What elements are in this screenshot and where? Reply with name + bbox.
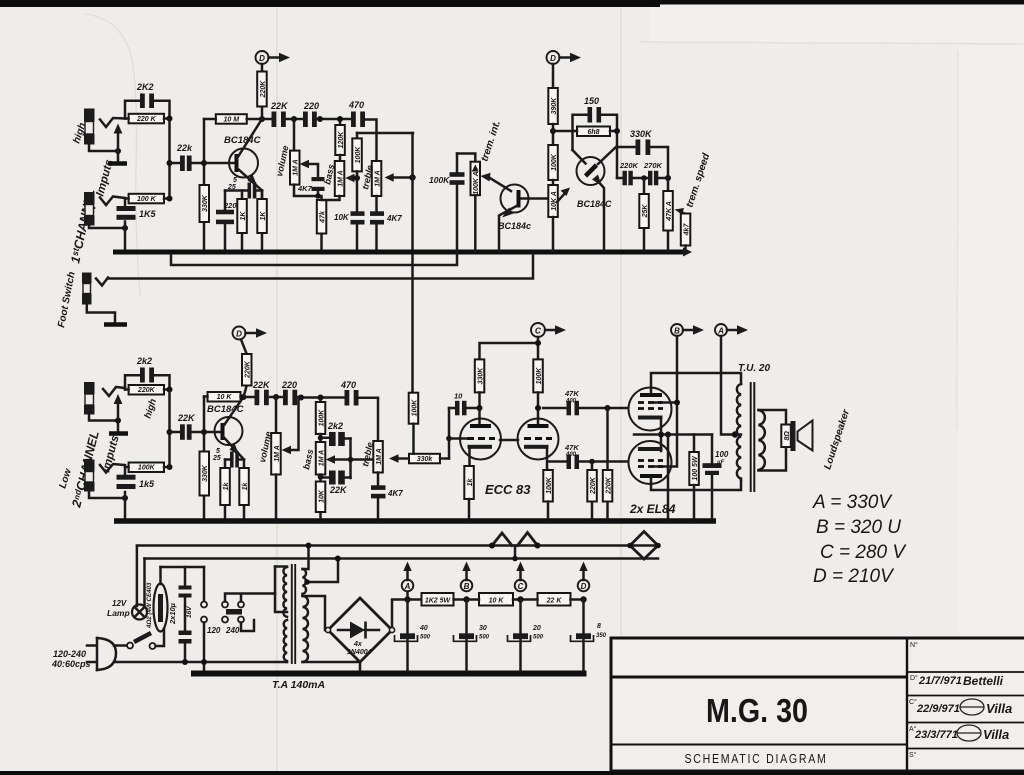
heater wire lower [145,557,659,560]
resistor 220K grid EL84 upper [606,408,609,518]
base feed vertical ch1 [203,119,206,251]
tube EL84 lower circle [629,441,672,484]
title block divider vertical [906,638,908,771]
arrow from A [727,329,739,332]
svg-text:20: 20 [532,625,541,632]
cap 4u7 ch1 [312,177,325,181]
V1a to V1b link [500,439,518,442]
resistor 220K ch1 high [129,114,164,124]
resistor 10K ch2 [208,392,241,402]
emitter network ch1 [261,191,264,200]
Q1 base wire and bar [204,162,236,165]
cathode ground drop [667,435,670,519]
mix wire vertical ch2 [168,390,171,468]
resistor 10M ch1 [216,114,247,124]
heater chevron 2 [518,533,538,546]
wire 470 to treble ch2 [359,398,379,441]
svg-text:10 K: 10 K [217,394,233,401]
svg-text:4Ω2 (4W CE403: 4Ω2 (4W CE403 [146,582,153,629]
svg-text:240: 240 [225,626,240,635]
treble wiper arrow ch1 [390,176,413,179]
ground rail ch2 [114,518,716,524]
jack high ch2 sleeve wire [89,415,118,421]
Q4 bar [586,165,597,176]
svg-text:22K: 22K [252,380,271,390]
cap 22K ch2 input [170,431,205,434]
Q2 emitter [224,437,245,460]
HV bottom wire to bridge [303,661,361,664]
svg-text:500: 500 [420,635,431,641]
svg-text:25: 25 [212,455,221,462]
svg-text:390K: 390K [551,97,558,115]
svg-text:120K: 120K [338,131,345,149]
wire 470 to treble ch1 [365,120,377,162]
svg-text:1k: 1k [223,482,230,491]
power supply ground rail [191,671,587,677]
svg-text:100K: 100K [536,367,543,385]
svg-text:Villa: Villa [986,701,1012,716]
cap 4K7 ch1 treble [375,196,378,251]
svg-text:220K: 220K [137,387,156,394]
A feed to center tap [721,336,741,435]
svg-text:22 K: 22 K [546,598,563,605]
Q3 emitter [499,206,517,251]
bridge bottom to ground rail [359,662,362,671]
arrow from D ch1 [269,56,282,59]
EL84 upper grid dashes [638,407,663,410]
svg-text:B: B [464,582,470,591]
bridge output wire up to bus [392,600,408,628]
foot switch wire to rail [108,254,533,279]
svg-text:4k7: 4k7 [683,223,690,237]
svg-text:25K: 25K [642,204,649,219]
cap 2K2 ch2 loop [125,375,170,389]
secondary loop to 8 ohm [759,410,787,471]
V1b cathode [524,445,549,449]
node D supply [580,596,586,602]
svg-text:47K: 47K [564,389,579,398]
B screen feed vertical [655,336,677,467]
resistor 100K trem chain [548,145,558,180]
resistor 47K ch1 [320,196,323,251]
svg-text:470: 470 [348,100,364,110]
svg-text:1M A: 1M A [376,448,383,464]
arrow from B [683,329,695,332]
resistor 330K ch2 [200,452,210,496]
voltage selector column1 terminals [203,567,206,601]
svg-text:Villa: Villa [983,727,1009,742]
selector top common wiring [225,594,275,602]
svg-text:A: A [717,327,724,336]
pot 10K A trem [552,180,555,185]
resistor 220K ch1 D feed [261,64,264,119]
EL84 lower grid dashes [638,459,663,462]
svg-text:22/9/971: 22/9/971 [916,703,960,715]
Q4 collector [573,150,586,164]
svg-text:100K: 100K [355,146,362,164]
V1b grid dashes [524,437,552,440]
page curl mark top left [85,14,140,295]
svg-text:25: 25 [227,184,236,191]
paper crease vertical left [276,8,278,770]
10K A wiper arrow [557,191,567,202]
power transformer core [291,564,293,664]
selector bottom L wire [241,620,254,631]
lamp circle [132,605,147,620]
resistor 220K ch2 D feed [241,340,247,398]
Q4 base diagonal [598,146,617,164]
jack high switch arrow [117,133,120,162]
resistor 330K mixing ch2 [409,454,440,464]
svg-text:30: 30 [479,625,487,632]
svg-text:120-240: 120-240 [53,649,86,659]
svg-text:100K: 100K [138,465,156,472]
cap 220 ch2 [283,390,288,406]
heater secondary winding [303,546,309,570]
resistor 330K plate load V1a [475,359,485,392]
title block line under top cell [611,676,907,679]
svg-text:500: 500 [479,635,490,641]
svg-text:100K: 100K [551,153,558,171]
svg-text:400: 400 [565,399,577,405]
Q1 collector [238,119,263,158]
svg-text:1K2 5W: 1K2 5W [425,598,452,605]
V1b plate [537,408,540,425]
EL84 upper plate [640,393,662,397]
selector column3 terminals [238,602,244,608]
volume pot bottom ch2 [275,475,278,519]
svg-text:8Ω: 8Ω [784,431,791,441]
svg-text:47k: 47k [319,210,326,224]
bottom scan edge bar [0,771,1024,775]
heater wire upper [137,544,658,547]
svg-text:330K: 330K [477,367,484,385]
svg-text:220K: 220K [605,476,612,495]
resistor 100K ch1 treble [352,138,362,171]
emitter network ch2 [225,460,244,469]
V1a grid dashes [467,437,495,440]
resistor 390K trem [552,64,555,88]
transistor Q3 BC184C circle [501,185,529,213]
svg-text:M.G. 30: M.G. 30 [706,692,808,729]
svg-text:16V: 16V [186,606,193,618]
svg-text:D°: D° [910,674,918,682]
selector wire to primary tap [275,567,287,613]
resistor 220K ch2 high [129,385,164,395]
svg-text:2x10µ: 2x10µ [168,602,177,625]
svg-text:1k: 1k [467,478,474,487]
transistor Q1 BC184C circle [229,149,258,178]
svg-text:47K A: 47K A [666,201,673,222]
svg-text:A = 330V: A = 330V [812,492,893,513]
cap 1K5 ch1 [124,199,127,252]
resistor 100K ch1 low [129,194,164,204]
bass pot ch2 [316,442,326,475]
svg-text:10K: 10K [334,213,350,222]
filter cap A [406,600,409,672]
svg-text:Bettelli: Bettelli [963,674,1004,688]
arrow from D trem [560,56,573,59]
bass pot bottom ch1 [322,196,340,200]
EL84 lower cathode [638,447,663,451]
svg-text:330K: 330K [202,194,209,212]
cap 1K5 ch2 [124,467,127,518]
Q1 emitter [238,169,263,191]
selector jumper bar [226,609,242,615]
svg-text:100 5W: 100 5W [692,455,699,481]
supply circle D trem [547,51,560,64]
resistor 220K grid EL84 lower [591,462,594,519]
fuse holder oval [154,584,168,632]
cap 10 feedback [449,407,480,410]
svg-text:5: 5 [216,448,220,455]
V1a cathode [468,445,493,449]
svg-text:1M A: 1M A [337,170,344,186]
supply circle A [715,324,727,336]
svg-text:22k: 22k [176,143,193,153]
svg-text:4K7: 4K7 [387,489,403,498]
svg-text:B = 320 U: B = 320 U [816,517,901,538]
bass wiper arrow ch2 [331,458,375,461]
jack high ch1 [84,109,95,122]
svg-text:150: 150 [584,96,599,106]
switch lever [134,633,151,642]
trem speed wiper from 4K7 [680,212,686,215]
resistor 10K ch2 bass bottom [319,475,322,519]
svg-text:Lamp: Lamp [107,608,130,618]
svg-text:D: D [259,54,265,63]
foot switch ground [87,305,115,323]
svg-text:D = 210V: D = 210V [813,566,895,587]
svg-text:22K: 22K [329,485,348,495]
supply circle C [531,323,545,337]
jack low ch2 sleeve wire [89,492,125,499]
tube ECC83 V1a circle [460,419,501,460]
svg-text:100K: 100K [429,175,450,185]
svg-text:220K: 220K [619,161,639,170]
bridge corner rings [325,627,330,632]
title block line above bottom cell [611,744,907,746]
svg-text:C = 280 V: C = 280 V [820,542,907,563]
treble wiper arrow ch2 [395,457,409,460]
mains switch wire [114,644,127,647]
heater chevron base dots [489,543,495,549]
svg-text:4K7: 4K7 [297,184,313,193]
long vertical to ch2 mix [411,133,414,393]
jack low contact V [100,197,125,206]
cap 4K7 ch2 treble [377,473,380,519]
cap 100K trem [456,154,459,252]
tube ECC83 V1b circle [518,419,559,460]
paper crease horizontal top right [640,42,1024,44]
svg-text:10 M: 10 M [224,116,240,123]
svg-text:21/7/971: 21/7/971 [918,675,962,687]
volume wiper arrow ch2 [287,398,299,451]
trem wiper arrow to Q3 [489,178,511,192]
node B supply [463,596,469,602]
svg-text:2x EL84: 2x EL84 [629,502,676,516]
cap 470 ch1 [351,112,356,128]
svg-text:C: C [518,582,524,591]
svg-text:120: 120 [207,626,221,635]
cap 150 [588,107,593,123]
cap 2x10u bottom stem [184,644,187,663]
filter cap C [519,600,522,672]
resistor 25K trem [643,178,646,251]
V1a grid wire [449,437,466,440]
svg-text:350: 350 [596,633,607,639]
cathode junction wire [634,433,712,436]
pot 47K A trem speed [667,178,670,251]
cap 100uF cathode [711,435,714,464]
C feed wire [480,337,539,359]
svg-text:2k2: 2k2 [136,356,152,366]
mains plug [87,638,97,670]
EL84 lower plate [640,474,662,478]
svg-text:100K: 100K [546,476,553,494]
svg-text:N°: N° [910,641,918,649]
resistor 10K [479,593,513,606]
ground bar ch1 high [108,161,127,166]
resistor 120K ch1 [339,119,342,125]
foot switch contact V [96,278,108,286]
output transformer primary [737,384,741,480]
svg-text:220: 220 [281,380,297,390]
bass cap link vertical [349,439,352,479]
svg-text:220: 220 [303,101,319,111]
cap 2K2 ch1 loop [125,101,170,119]
transistor Q2 BC184C circle [215,417,243,445]
svg-text:23/3/771: 23/3/771 [914,729,958,741]
svg-text:470: 470 [340,380,356,390]
svg-text:400: 400 [565,452,577,458]
inductor 6h8 box [577,127,610,137]
svg-text:220K: 220K [590,476,597,495]
switch contact left [127,643,133,649]
grid riser from mix [448,408,451,459]
output transformer core [750,382,752,492]
arrow from C [545,329,557,332]
EL84 upper cathode [638,416,663,420]
svg-text:220: 220 [223,201,237,210]
power transformer primary winding [275,565,287,568]
svg-text:T.A 140mA: T.A 140mA [272,679,325,691]
svg-text:100K A: 100K A [473,171,480,194]
signal wire ch2 y397 [244,396,345,399]
pot 100K A trem [471,162,481,196]
svg-text:4x: 4x [353,641,363,648]
svg-text:2k2: 2k2 [327,421,343,431]
loudspeaker horn [798,421,813,451]
supply circle D ch1 [256,51,269,64]
bass wiper arrow ch1 [351,177,357,180]
treble pot ch1 [372,161,382,196]
caps 220K 270K row [617,177,668,180]
svg-text:T.U. 20: T.U. 20 [738,363,770,374]
svg-text:D: D [581,582,587,591]
cap 22K ch2 bass [323,476,351,479]
svg-text:330k: 330k [417,456,434,463]
Q3 base wire [521,197,549,200]
svg-text:µF: µF [716,460,724,466]
cap 47K 400 upper [543,407,628,410]
cap 470 ch2 [345,390,350,406]
jack high ch2 [84,382,95,394]
svg-text:BC184C: BC184C [577,199,612,209]
lamp lead 1 from heater wire [136,546,139,606]
resistor 1K ch1 first [241,191,244,252]
switch contact right [150,643,156,649]
cap 22K ch1 input [170,162,205,165]
svg-text:1k5: 1k5 [139,479,155,489]
title block outer border [611,638,1024,771]
cap 22K ch2 coupling [255,390,260,406]
arrow from D ch2 [246,332,259,335]
signal wire ch1 y119 [262,118,351,121]
resistor 100 5W cathode [693,435,696,453]
svg-text:S°: S° [909,751,917,759]
jack high ch2 contact V [103,387,125,396]
svg-text:1K5: 1K5 [139,209,157,219]
resistor 1K ch1 second [261,191,264,252]
feedback network 150 + 6h8 [553,115,617,178]
Q2 collector [224,397,244,426]
cap 2k2 ch2 bass [323,437,351,440]
resistor 100K ch2 low [129,463,164,473]
ground bar ch2 high [109,431,128,436]
volume pot ch1 [293,119,296,151]
HV top wire to bridge [303,596,330,630]
transistor Q4 BC184C circle [577,157,605,185]
cap 2x10u stem top [184,567,187,586]
cap 22K ch1 coupling [272,112,277,128]
jack high contact V [100,118,125,127]
heater chevron 1 [492,533,512,546]
tube EL84 upper circle [629,388,672,431]
svg-text:1M A: 1M A [293,159,300,175]
HV secondary winding [303,596,309,662]
loudspeaker bar [791,421,796,451]
resistor 1K ch2 first [224,460,227,519]
svg-text:22K: 22K [270,101,289,111]
base feed vertical ch2 [203,397,206,519]
Q2 base bar [204,431,222,434]
svg-text:220K: 220K [244,360,251,379]
heater tap wire [306,559,338,582]
node C supply [517,596,523,602]
right column row lines [907,671,1024,673]
svg-text:40:60cps: 40:60cps [51,659,91,669]
svg-text:100: 100 [715,450,729,459]
svg-text:1K: 1K [240,211,247,221]
svg-text:100K: 100K [411,399,418,417]
filter cap D [582,600,585,672]
svg-text:5: 5 [233,177,237,184]
cap 220 ch1 [303,112,308,128]
svg-text:220 K: 220 K [136,116,157,123]
bridge rectifier diamond [328,598,392,662]
lamp lead 2 from heater wire [143,559,146,606]
svg-text:A: A [404,582,411,591]
svg-text:C°: C° [909,698,917,706]
supply circle D ch2 [233,327,246,340]
Q3 base bar [517,190,521,208]
bass pot ch1 [339,155,342,161]
mix wire vertical ch1 [168,119,171,199]
cap 10K ch1 [356,178,359,251]
svg-text:330K: 330K [630,129,653,139]
selector column2 terminals [222,602,228,608]
